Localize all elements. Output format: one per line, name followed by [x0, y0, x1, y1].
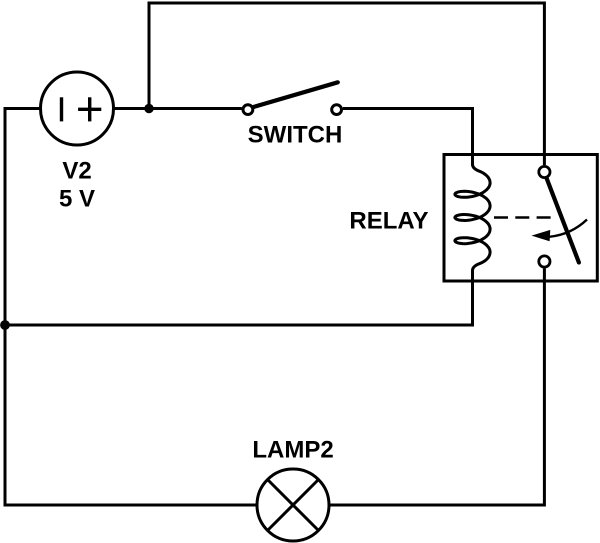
relay contact pin bottom — [539, 256, 550, 267]
wire — [5, 109, 257, 506]
voltage source V2 — [41, 72, 114, 145]
relay coil L — [455, 155, 490, 282]
svg-text:5 V: 5 V — [59, 186, 95, 213]
svg-text:LAMP2: LAMP2 — [252, 437, 333, 464]
svg-text:RELAY: RELAY — [349, 207, 428, 234]
svg-text:V2: V2 — [62, 157, 91, 184]
relay dashed link — [494, 216, 552, 219]
wire — [343, 109, 473, 155]
node junction — [144, 104, 153, 113]
relay lever — [547, 179, 579, 263]
relay contact pin top — [539, 166, 550, 177]
switch SW1 — [243, 82, 342, 114]
wire — [114, 107, 242, 110]
relay K1 box — [444, 155, 597, 282]
relay arrow — [532, 220, 588, 242]
node junction — [0, 320, 10, 330]
lamp LAMP2 — [257, 469, 329, 541]
wire — [329, 269, 544, 506]
wire — [149, 3, 544, 165]
svg-text:SWITCH: SWITCH — [248, 122, 343, 149]
wire — [5, 281, 473, 325]
